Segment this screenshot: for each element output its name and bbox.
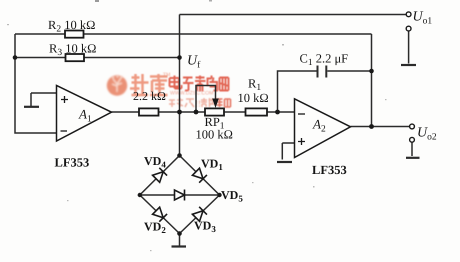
svg-text:WWW.DZSC.COM: WWW.DZSC.COM [170, 91, 214, 97]
svg-text:LF353: LF353 [55, 156, 90, 170]
svg-text:C1 2.2 μF: C1 2.2 μF [300, 52, 349, 69]
svg-text:VD2: VD2 [144, 220, 166, 236]
svg-text:Uf: Uf [187, 54, 201, 71]
svg-text:Uo2: Uo2 [417, 126, 437, 143]
svg-text:VD3: VD3 [194, 219, 216, 235]
svg-text:Uo1: Uo1 [413, 10, 433, 27]
svg-text:10 kΩ: 10 kΩ [238, 91, 269, 105]
svg-text:VD1: VD1 [201, 157, 223, 173]
svg-text:TM: TM [163, 72, 171, 78]
svg-text:VD5: VD5 [221, 188, 243, 204]
svg-text:LF353: LF353 [312, 163, 347, 177]
svg-text:VD4: VD4 [144, 154, 166, 170]
svg-text:100 kΩ: 100 kΩ [196, 128, 233, 142]
svg-text:2.2 kΩ: 2.2 kΩ [133, 89, 166, 103]
